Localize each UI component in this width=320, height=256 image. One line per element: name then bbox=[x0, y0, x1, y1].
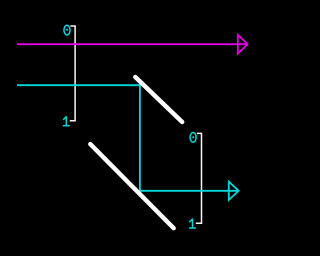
bracket B2 (right register bracket) bbox=[196, 133, 202, 223]
swap S1 (upper white diagonal stroke) bbox=[135, 77, 182, 122]
wire W2 (cyan stepped line) bbox=[17, 85, 238, 191]
wire W1 (magenta horizontal line) bbox=[17, 43, 248, 45]
arrowhead A1 (magenta open triangle) bbox=[238, 35, 248, 54]
label 1 (bracket B1 bottom) bbox=[64, 117, 69, 126]
swap S2 (lower white diagonal stroke) bbox=[90, 144, 173, 228]
bracket B1 (left register bracket) bbox=[70, 26, 75, 121]
label 1 (bracket B2 bottom) bbox=[190, 219, 195, 228]
label 0 (bracket B1 top, dotted zero) bbox=[64, 25, 70, 35]
arrowhead A2 (cyan open triangle) bbox=[229, 182, 239, 200]
label 0 (bracket B2 top, dotted zero) bbox=[190, 132, 196, 142]
